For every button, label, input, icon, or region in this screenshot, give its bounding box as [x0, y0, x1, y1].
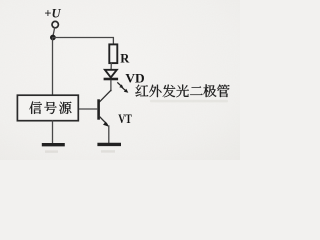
signal source text 信号源: [29, 101, 71, 113]
node +U label: [44, 6, 61, 21]
svg-text:VT: VT: [118, 111, 132, 126]
terminal +U circle: [52, 21, 58, 27]
wire diode to collector: [110, 80, 112, 90]
resistor R body: [109, 44, 117, 63]
svg-text:+U: +U: [44, 6, 61, 21]
wire resistor to diode: [110, 63, 112, 70]
wire emitter to ground: [108, 126, 110, 143]
signal source box: [17, 95, 78, 121]
transistor VT collector lead: [100, 90, 111, 101]
wire junction to resistor: [53, 38, 114, 45]
LED emission arrow 2: [121, 87, 128, 93]
wire junction down to signal source: [52, 38, 54, 96]
diode VD label: [125, 70, 144, 85]
svg-text:VD: VD: [125, 70, 144, 85]
junction dot: [50, 35, 56, 41]
transistor VT label: [118, 111, 132, 126]
transistor VT base bar: [97, 101, 100, 119]
wire terminal to junction: [53, 28, 55, 36]
wire base to signal source: [78, 108, 97, 110]
LED emission arrow 1: [118, 83, 124, 88]
transistor VT emitter lead with arrow: [99, 116, 107, 124]
diode VD triangle: [105, 70, 117, 78]
diode VD cathode bar: [105, 78, 117, 81]
resistor R label: [120, 51, 130, 65]
svg-text:R: R: [120, 51, 130, 65]
wire signal source to ground: [52, 121, 54, 143]
ground (emitter): [99, 143, 119, 146]
annotation 红外发光二极管: [135, 84, 229, 97]
ground (signal source): [44, 143, 64, 146]
